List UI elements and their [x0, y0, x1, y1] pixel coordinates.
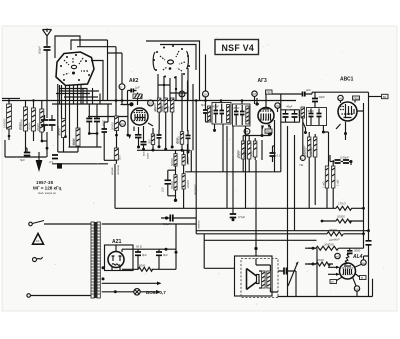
resistor R1	[3, 104, 12, 129]
svg-text:0,5μF: 0,5μF	[238, 215, 245, 219]
grid arrow 1	[328, 266, 340, 269]
node bus junctions	[8, 99, 244, 102]
T2 capacitor a	[234, 112, 239, 115]
svg-text:1 мΩ: 1 мΩ	[336, 179, 340, 186]
speaker LS1 cone	[247, 269, 260, 290]
capacitor C25 filter	[135, 249, 147, 269]
resistor R10	[147, 134, 154, 145]
resistor R22	[321, 166, 328, 188]
wire vertical osc line	[195, 101, 197, 234]
svg-text:10pF: 10pF	[319, 95, 326, 99]
svg-text:2000: 2000	[175, 137, 179, 145]
grid box ABC1	[353, 96, 360, 100]
svg-text:100000: 100000	[3, 118, 7, 128]
node AVC	[127, 134, 130, 137]
tube V3 ABC1 envelope	[338, 102, 357, 121]
arrow AG3 lead2	[268, 125, 271, 129]
pin circle AL4 b	[361, 260, 366, 265]
svg-text:AZ1: AZ1	[112, 239, 122, 245]
bus audio bottom	[196, 233, 327, 235]
wire long vertical left of gang2	[187, 81, 189, 164]
resistor R2	[20, 107, 28, 131]
svg-text:пб: пб	[339, 96, 343, 100]
resistor R18b	[170, 175, 177, 190]
svg-text:20000: 20000	[336, 215, 345, 219]
ground arrow chassis	[36, 152, 43, 172]
resistor R21	[310, 137, 317, 157]
wire AL4 left vertical	[316, 248, 318, 296]
wire AK2 cathode leads	[134, 123, 153, 142]
svg-text:2600: 2600	[297, 110, 301, 118]
gang2 stator brackets	[153, 51, 188, 70]
wire R20 R21 leads	[309, 132, 315, 208]
arrow AK2 lead1	[128, 135, 131, 140]
tube V1 grid dashes	[134, 113, 146, 121]
resistor R8	[114, 148, 121, 160]
IF can T2 box	[233, 104, 251, 126]
transformer T4 primary	[91, 222, 94, 298]
pin circle AG3 lower	[244, 128, 250, 134]
resistor R20	[304, 137, 311, 157]
wire antenna to tank	[46, 50, 48, 118]
svg-text:П: П	[361, 276, 363, 280]
switch S1 mains	[29, 221, 91, 226]
gang G1 rotor dashes	[63, 58, 88, 75]
svg-text:пб: пб	[180, 92, 184, 96]
capacitor C6	[102, 122, 108, 160]
resistor R5	[58, 119, 66, 138]
main bus B+	[2, 100, 296, 102]
capacitor C16	[270, 146, 281, 162]
svg-text:500pF: 500pF	[38, 46, 42, 54]
gang G2 rotor dashes	[160, 51, 185, 71]
wire gang2 legs	[158, 68, 193, 101]
wire diode can frame	[281, 110, 300, 122]
svg-text:AL4: AL4	[352, 254, 363, 260]
wire speaker right drop	[295, 271, 297, 297]
capacitor C3 trimmer	[49, 115, 56, 131]
wire antenna lead	[46, 37, 48, 46]
coil L3 hatched	[297, 107, 305, 118]
node Z3	[362, 232, 365, 235]
wire L3 bottom jog	[303, 122, 306, 133]
node speaker feed	[254, 247, 257, 250]
svg-text:5000: 5000	[354, 249, 361, 253]
svg-text:10: 10	[203, 92, 207, 96]
svg-text:пд: пд	[362, 261, 366, 265]
pin circle ABC1 left	[338, 95, 343, 100]
svg-text:20000: 20000	[18, 122, 22, 131]
node ABC1 cathode	[344, 132, 347, 135]
resistor R11	[154, 98, 161, 112]
svg-text:20000Ω: 20000Ω	[323, 243, 335, 247]
wire long vertical diode	[288, 126, 295, 297]
wire speaker internal	[256, 259, 278, 293]
svg-text:8μF: 8μF	[201, 103, 206, 107]
capacitor C17 detector	[161, 170, 172, 196]
wire AG3 bottom leads	[262, 108, 278, 135]
resistor R12	[160, 98, 167, 112]
pin circle AL4 c	[354, 286, 359, 291]
svg-text:40000: 40000	[153, 103, 157, 111]
svg-text:Пв: Пв	[300, 163, 304, 167]
resistor R13	[167, 98, 174, 112]
wire T1 T2 bus taps	[221, 101, 242, 105]
wire can taps down	[246, 126, 263, 256]
capacitor C21	[312, 92, 325, 107]
resistor Z6 bleeder	[122, 264, 176, 272]
capacitor C5	[94, 104, 100, 135]
svg-text:8μF: 8μF	[142, 253, 147, 257]
capacitor C11	[135, 135, 142, 149]
wire R6 bottom	[77, 146, 79, 152]
AZ1 anode plates	[112, 256, 122, 265]
wire cathode row	[137, 149, 190, 151]
svg-text:30000: 30000	[72, 138, 76, 146]
tube V2 electrodes	[260, 111, 272, 120]
rectifier box AZ1	[105, 245, 134, 271]
coil L1 legs	[59, 85, 87, 147]
svg-text:громк: громк	[110, 167, 114, 175]
node Z5 left	[312, 263, 315, 266]
wire gang2 leg ties	[158, 85, 188, 93]
capacitor C27 speaker	[278, 268, 296, 275]
svg-text:170 Ω: 170 Ω	[338, 202, 346, 206]
svg-text:25000: 25000	[36, 123, 40, 132]
svg-text:5μF: 5μF	[20, 158, 25, 162]
resistor R4	[36, 109, 44, 132]
resistor R14	[176, 132, 183, 145]
wire right edge drop	[372, 279, 374, 297]
wire AG3 grid leads	[255, 94, 267, 107]
resistor R16	[244, 141, 251, 159]
node AK2 plate dot	[129, 102, 133, 106]
pin 4 AK2	[120, 121, 126, 127]
svg-text:50000: 50000	[170, 181, 174, 189]
resistor R23	[332, 166, 340, 188]
svg-text:потенц: потенц	[116, 164, 120, 175]
wire tank bottoms	[42, 132, 47, 157]
capacitor C28 top	[347, 248, 353, 253]
svg-text:8μF: 8μF	[163, 253, 168, 257]
capacitor C9 electrolytic	[57, 163, 62, 168]
cathode box AG3	[265, 129, 272, 134]
pin circle AL4 a	[335, 253, 340, 258]
wire volume drops	[114, 164, 116, 209]
transformer T4 secondary	[97, 222, 100, 298]
resistor Z4	[305, 243, 364, 251]
svg-text:NSF V4: NSF V4	[222, 43, 255, 53]
wire filter right vertical	[175, 224, 177, 269]
resistor R19a	[182, 155, 190, 166]
tube V2 AG3 envelope	[258, 108, 274, 124]
wire R9 to tube	[137, 93, 139, 106]
svg-text:45pF: 45pF	[213, 105, 220, 109]
AL4 electrodes	[343, 268, 353, 275]
wire right verticals	[364, 92, 369, 296]
wire C7 top	[26, 147, 28, 149]
wire L3 bottom	[302, 118, 304, 156]
wire R5 bottom	[63, 138, 65, 153]
svg-text:20000: 20000	[111, 122, 115, 131]
wire AG3 anode drop	[273, 120, 275, 172]
wire AK2 grid row	[88, 116, 128, 118]
node lamp tap	[114, 290, 117, 293]
wire audio drop left	[204, 234, 235, 268]
wire pin1 drop	[122, 90, 133, 105]
resistor R6	[72, 128, 80, 146]
tube V4 AZ1 envelope	[108, 252, 124, 268]
wire fb bus	[312, 92, 369, 94]
resistor R18a	[170, 154, 177, 166]
transformer T4 core	[95, 222, 96, 298]
svg-text:детект: детект	[193, 184, 197, 195]
wire AL4 bottom leads	[337, 274, 360, 286]
capacitor C7	[20, 148, 30, 162]
svg-text:П: П	[331, 280, 333, 284]
tuning gang G1 outline	[56, 52, 94, 86]
capacitor C8	[49, 155, 58, 164]
wire R11 R12 R13 bottoms	[159, 112, 172, 149]
bus field coil	[204, 239, 316, 241]
wire HT top	[102, 223, 197, 225]
capacitor C1 antenna series	[38, 46, 51, 54]
elbow wire detector	[223, 124, 281, 208]
wire R8 bottom	[115, 160, 117, 164]
bus bottom right	[278, 296, 373, 298]
wire R1 leads	[8, 101, 10, 137]
capacitor C24	[366, 241, 372, 245]
svg-text:глро: глро	[146, 153, 150, 159]
svg-text:500000: 500000	[309, 145, 313, 155]
capacitor C26 filter	[156, 249, 168, 269]
resistor R15	[238, 141, 245, 159]
antenna A1	[43, 29, 52, 45]
svg-text:АК2: АК2	[129, 78, 139, 84]
wire T1 bottom lead	[214, 124, 216, 130]
node R1 bottom	[8, 135, 11, 138]
svg-text:5000: 5000	[102, 119, 106, 126]
wire ABC1 bottom leads	[336, 122, 346, 140]
grid arrow 2	[328, 273, 340, 276]
wire heater row1 arrow	[102, 282, 162, 286]
node T3 bottom	[322, 131, 325, 134]
capacitor C23	[340, 156, 353, 164]
screen box AL4	[360, 276, 367, 281]
pin 1 AK2	[119, 84, 125, 90]
svg-text:50000: 50000	[242, 150, 246, 158]
node secondary taps	[102, 266, 105, 269]
wire HT rail	[122, 249, 176, 270]
wire vertical mixer out	[192, 101, 194, 151]
capacitor C14	[186, 130, 191, 154]
grid cap box AG3	[266, 90, 273, 95]
tube V1 electrodes	[135, 111, 145, 121]
gang G1 dots	[60, 65, 62, 67]
wire heater row2 arrow	[102, 290, 161, 294]
node R7	[115, 134, 118, 137]
pin 6 AK2	[179, 91, 185, 97]
wire NSF stub	[205, 55, 207, 101]
wire ABC1 pin leads	[341, 100, 364, 111]
wire R22 R23 leads	[327, 160, 333, 208]
svg-text:45pF: 45pF	[233, 106, 240, 110]
wire top loop left	[55, 36, 80, 58]
wire gang1 to bus right	[91, 61, 103, 101]
warning triangle	[33, 234, 44, 245]
node AG3 top	[255, 102, 258, 105]
svg-text:60: 60	[383, 95, 387, 99]
svg-text:15: 15	[149, 101, 153, 105]
resistor Z7 grid	[345, 254, 350, 265]
gang G1 center	[71, 65, 76, 68]
IF can T1 box	[212, 103, 231, 125]
svg-text:1pF: 1pF	[135, 86, 140, 90]
svg-text:АГ3: АГ3	[258, 78, 267, 84]
model box NSF V4	[215, 40, 259, 55]
wire AL4 cathode drop	[356, 291, 358, 296]
node osc junctions	[163, 84, 165, 86]
capacitor C30 diode	[283, 110, 289, 122]
T3 capacitor a	[309, 114, 314, 117]
svg-text:10000: 10000	[186, 180, 190, 188]
svg-text:МГ = 128 кГц: МГ = 128 кГц	[33, 186, 62, 191]
dial lamp BO92	[134, 289, 140, 295]
capacitor C2 trimmer	[41, 115, 48, 131]
node HT	[165, 248, 168, 251]
gang G2 center	[168, 60, 174, 64]
svg-text:2pF: 2pF	[305, 88, 311, 92]
speaker box solid	[235, 256, 273, 296]
tuning gang G2 dots	[153, 45, 190, 79]
svg-text:300000: 300000	[302, 145, 306, 155]
wire AG3 cathode row	[243, 135, 270, 137]
wire lower left rows	[5, 147, 117, 164]
svg-text:25000: 25000	[236, 150, 240, 159]
wire C6 top lead	[104, 104, 108, 122]
node Z4 left	[312, 247, 315, 250]
capacitor C10 grid	[128, 86, 141, 93]
resistor R17	[250, 141, 257, 157]
wire left edge pair	[2, 97, 20, 99]
capacitor C20 coupling	[272, 88, 312, 97]
svg-text:30000: 30000	[186, 157, 190, 165]
svg-text:44: 44	[120, 122, 124, 126]
cathode box AL4	[330, 280, 337, 285]
node screen junctions	[164, 148, 167, 151]
svg-text:1957-38: 1957-38	[36, 180, 54, 185]
wire gang2 inner frame	[77, 45, 196, 117]
wire detector elbow	[168, 170, 176, 200]
fuse symbol	[33, 257, 43, 262]
capacitor C15 osc pad	[201, 101, 208, 123]
T1 coil winding	[227, 105, 230, 123]
svg-text:0,05μF: 0,05μF	[340, 156, 349, 160]
tube V3 electrodes	[340, 107, 354, 115]
wire R2 R3 R4 leads	[26, 101, 42, 153]
wire R10 leads	[152, 128, 154, 150]
svg-text:ПБ: ПБ	[266, 91, 270, 95]
wire AL4 anode	[355, 256, 369, 267]
box 60	[382, 94, 389, 99]
wire box 60 stub	[369, 96, 382, 98]
capacitor C12	[141, 142, 147, 151]
svg-text:10: 10	[36, 239, 40, 243]
resistor Z3 30000	[327, 228, 364, 236]
svg-text:пб: пб	[276, 104, 280, 108]
mains terminal bottom	[27, 294, 91, 298]
svg-text:ПБ2: ПБ2	[353, 96, 359, 100]
T3 capacitor b	[317, 114, 322, 117]
variable arrow speaker	[288, 261, 299, 286]
svg-text:пб: пб	[336, 254, 340, 258]
node tank junctions	[41, 140, 44, 143]
node Z1	[362, 207, 365, 210]
wire top loop inner	[71, 40, 200, 101]
wire R7 leads	[116, 131, 118, 149]
svg-text:100: 100	[161, 187, 165, 192]
capacitor C19	[230, 126, 246, 221]
wire left drop	[5, 136, 9, 157]
wire T3 bottom drop	[323, 126, 328, 167]
tube V1 AK2 envelope	[131, 108, 148, 125]
speaker box dashed	[241, 259, 278, 298]
bus detector out	[115, 207, 336, 209]
pin 10 circle	[203, 91, 209, 97]
svg-text:50000: 50000	[170, 158, 174, 166]
svg-text:45pF: 45pF	[286, 105, 293, 109]
wire AG3 plate drop	[280, 94, 282, 172]
svg-text:лампы: лампы	[197, 220, 201, 230]
wire AF takeoff	[185, 150, 223, 172]
scan speckle noise	[16, 30, 384, 305]
wire AVC vertical	[127, 105, 129, 136]
svg-text:пд: пд	[355, 287, 359, 291]
node AG3 cathode	[261, 134, 264, 137]
svg-text:100Ω: 100Ω	[317, 258, 325, 262]
svg-text:50000: 50000	[160, 103, 164, 111]
wire R14 leads	[181, 97, 183, 150]
node L3 bottom	[304, 131, 307, 134]
svg-text:1000: 1000	[167, 105, 171, 112]
wire C4 C5 tie	[83, 88, 97, 147]
node detector bottom	[174, 199, 177, 202]
svg-text:4,5: 4,5	[49, 160, 53, 164]
pin circle AG3 left	[252, 91, 257, 96]
svg-text:5000: 5000	[139, 264, 146, 268]
svg-text:40pF: 40pF	[308, 109, 315, 113]
svg-text:пб: пб	[253, 92, 257, 96]
svg-text:АВС1: АВС1	[340, 77, 354, 83]
resistor R19b	[182, 174, 190, 189]
wire R15 R16 R17 leads	[243, 136, 255, 173]
IF can T3 box	[307, 108, 327, 126]
node R5 bottom	[64, 135, 67, 138]
capacitor C31 diode	[286, 105, 298, 123]
svg-text:5000: 5000	[250, 150, 254, 157]
T1 capacitor a	[214, 111, 219, 114]
arrow AG3 lead1	[261, 126, 264, 130]
svg-text:50000: 50000	[28, 122, 32, 130]
bus audio top	[196, 230, 368, 232]
wire C22 left drop	[330, 155, 351, 165]
coil L1 winding ties	[52, 84, 112, 152]
svg-text:ВО92-0,7: ВО92-0,7	[146, 290, 166, 295]
node bus audio	[367, 229, 370, 232]
capacitor C22	[330, 160, 341, 163]
node T1 bottom	[213, 129, 216, 132]
tube V5 AL4 envelope	[340, 263, 356, 279]
